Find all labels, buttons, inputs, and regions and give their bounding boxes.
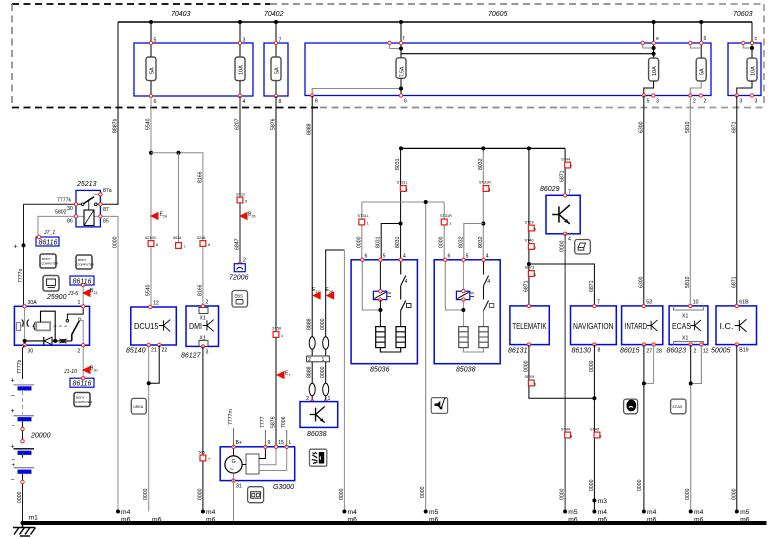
- svg-text:86015: 86015: [620, 348, 640, 355]
- ECU ECAS: [667, 306, 708, 355]
- pin 5: [149, 38, 156, 45]
- wire fuse F7 to pins: [737, 81, 752, 96]
- svg-text:25213: 25213: [76, 181, 97, 188]
- svg-text:0000: 0000: [339, 488, 345, 500]
- connector ST31L 1: [358, 214, 369, 226]
- svg-text:NAVIGATION: NAVIGATION: [573, 322, 614, 331]
- svg-text:12: 12: [703, 349, 709, 355]
- svg-text:0000: 0000: [356, 236, 362, 248]
- svg-text:4: 4: [534, 273, 536, 277]
- svg-text:86029: 86029: [540, 186, 560, 193]
- svg-text:85038: 85038: [456, 367, 476, 374]
- svg-text:2: 2: [308, 357, 311, 363]
- svg-text:+: +: [11, 444, 15, 451]
- heater unit 85036: [351, 260, 417, 374]
- svg-text:m3: m3: [598, 498, 608, 505]
- svg-text:5: 5: [534, 383, 536, 387]
- connector ST44 7: [561, 158, 572, 169]
- wire DMI ground: [197, 346, 203, 511]
- svg-text:7: 7: [568, 190, 571, 196]
- svg-text:0000: 0000: [560, 488, 566, 500]
- wire 6300 fuse F5 to INTARD: [638, 96, 644, 306]
- svg-text:2: 2: [406, 188, 408, 192]
- svg-text:0000: 0000: [420, 486, 426, 498]
- svg-text:J3-6: J3-6: [67, 291, 78, 297]
- svg-text:2: 2: [243, 258, 246, 264]
- svg-text:6871: 6871: [731, 276, 737, 288]
- svg-text:7: 7: [597, 300, 600, 306]
- svg-text:10: 10: [693, 300, 699, 306]
- svg-text:12: 12: [153, 301, 159, 307]
- wire ground run x344: [339, 250, 345, 512]
- svg-text:85036: 85036: [370, 367, 390, 374]
- svg-text:2: 2: [704, 99, 707, 105]
- pin 30: [67, 203, 78, 213]
- pin 6: [149, 94, 156, 105]
- svg-text:TELEMATIK: TELEMATIK: [512, 322, 547, 331]
- svg-text:1: 1: [449, 222, 451, 226]
- audio icon: [431, 398, 447, 414]
- svg-text:7: 7: [570, 165, 572, 169]
- wire 5810 fuse F6 to ECAS: [685, 96, 691, 306]
- svg-text:15: 15: [278, 440, 284, 446]
- pin 2 72006: [238, 258, 246, 266]
- twisted pair upper: [309, 337, 329, 349]
- svg-text:3: 3: [534, 228, 536, 232]
- svg-text:7006: 7006: [281, 416, 287, 428]
- svg-text:86: 86: [67, 219, 73, 225]
- svg-text:6: 6: [208, 243, 210, 247]
- pin 3: [735, 94, 742, 105]
- svg-text:m4: m4: [121, 509, 131, 516]
- pin 3: [652, 94, 659, 105]
- svg-text:5: 5: [383, 254, 386, 260]
- svg-text:7: 7: [289, 374, 291, 378]
- svg-text:506: 506: [199, 451, 205, 455]
- pin 3: [238, 38, 245, 45]
- svg-text:0000: 0000: [197, 488, 203, 500]
- connector ST44 4: [561, 428, 572, 439]
- svg-text:70403: 70403: [171, 11, 191, 18]
- svg-text:~: ~: [230, 467, 234, 474]
- svg-text:8032: 8032: [478, 158, 484, 170]
- wire 25900 pin2 to 86116: [82, 345, 84, 378]
- svg-text:1: 1: [281, 334, 283, 338]
- svg-text:8166: 8166: [198, 171, 204, 183]
- svg-text:1: 1: [367, 222, 369, 226]
- svg-text:6871: 6871: [560, 170, 566, 182]
- connector SBY3 4: [525, 266, 537, 278]
- pin 2b: [699, 94, 706, 105]
- svg-text:X1: X1: [682, 314, 688, 320]
- svg-text:G3000: G3000: [273, 484, 294, 491]
- wire distribution bus y148: [399, 146, 565, 150]
- svg-text:2: 2: [534, 246, 536, 250]
- antenna unit 86029: [540, 186, 580, 234]
- pin 12: [149, 301, 159, 309]
- twisted pair lower: [309, 383, 329, 395]
- marker B30: [63, 366, 98, 376]
- horn 72006: [229, 264, 249, 282]
- wire fuse F3 drop: [275, 22, 277, 57]
- wire fuse F7 feed: [751, 22, 753, 58]
- fuse box 70402: [264, 11, 288, 96]
- pin 4 85036: [399, 254, 406, 262]
- svg-text:8: 8: [279, 99, 282, 105]
- node m4 m6 INTARD: [642, 509, 657, 525]
- relay 25900: [14, 294, 89, 345]
- marker B26: [239, 212, 256, 221]
- wire fuse F6 feed: [700, 22, 702, 58]
- svg-text:m5: m5: [568, 509, 578, 516]
- svg-text:1: 1: [322, 357, 325, 363]
- dashed distribution frame: [12, 4, 764, 108]
- svg-text:L: L: [289, 440, 292, 446]
- wire 7777k horizontal to relay pin 30: [24, 198, 77, 205]
- svg-text:70605: 70605: [488, 11, 508, 18]
- svg-text:5810: 5810: [685, 121, 691, 133]
- wire ECAS ground: [685, 345, 701, 512]
- wire fuse F3 bottom: [275, 81, 277, 110]
- svg-text:0000: 0000: [560, 240, 566, 252]
- svg-text:21: 21: [94, 291, 98, 295]
- ECU I.C.: [711, 306, 757, 355]
- svg-text:6: 6: [704, 36, 707, 42]
- pin 22: [158, 343, 168, 353]
- svg-text:8888: 8888: [307, 366, 313, 378]
- wire branch 8031 to pin5: [376, 224, 401, 260]
- svg-text:4: 4: [568, 237, 571, 243]
- fuse box 70603: [728, 11, 761, 96]
- node m4 m6 DMI: [201, 509, 216, 525]
- ECU DCU15: [131, 307, 177, 345]
- wire 86029 ground 0000: [560, 234, 566, 512]
- antenna amp 86038: [300, 402, 338, 438]
- wire fuse F1 bottom: [150, 81, 152, 110]
- relay 25213: [76, 181, 100, 227]
- pin 4 86029: [563, 232, 571, 242]
- marker E7: [276, 371, 291, 380]
- wire fuse F4 feed: [400, 22, 402, 58]
- svg-text:BODY: BODY: [42, 257, 51, 261]
- svg-text:22: 22: [162, 348, 168, 354]
- pin 87: [99, 203, 109, 214]
- pin 8 NAVIGATION: [593, 343, 601, 354]
- marker B21: [82, 288, 98, 297]
- EBS icon: [232, 291, 248, 308]
- svg-text:30A: 30A: [28, 300, 38, 306]
- svg-text:ST31R: ST31R: [440, 214, 452, 218]
- wire stub 7777 pin9: [260, 416, 266, 446]
- ECU DMI: [186, 306, 219, 346]
- svg-text:6207: 6207: [235, 118, 241, 130]
- svg-text:6: 6: [365, 254, 368, 260]
- body computer label 2: [76, 255, 95, 269]
- svg-text:5034: 5034: [173, 236, 181, 240]
- svg-text:0000: 0000: [17, 491, 23, 503]
- svg-text:INTARD.: INTARD.: [625, 322, 649, 331]
- svg-text:5802: 5802: [55, 210, 67, 216]
- svg-text:52193: 52193: [145, 236, 156, 240]
- svg-text:−: −: [11, 477, 15, 484]
- pin 6 85038: [444, 254, 451, 262]
- connector ST40 9: [590, 428, 602, 439]
- svg-text:X1: X1: [200, 316, 206, 322]
- svg-text:72006: 72006: [229, 275, 249, 282]
- node m4 m6 ECAS: [689, 509, 704, 525]
- fuse F3 5A: [271, 57, 281, 81]
- svg-text:6: 6: [404, 99, 407, 105]
- wire stub 7006 pinL: [281, 416, 287, 446]
- svg-text:30: 30: [94, 369, 98, 373]
- svg-text:1: 1: [78, 300, 81, 306]
- svg-text:m4: m4: [206, 509, 216, 516]
- svg-text:6: 6: [154, 99, 157, 105]
- svg-text:m4: m4: [647, 509, 657, 516]
- svg-text:I.C.: I.C.: [720, 322, 734, 331]
- connector ST31L 2: [397, 181, 408, 193]
- svg-text:10A: 10A: [751, 66, 757, 76]
- pin 2: [689, 94, 696, 105]
- pin 4 85038: [482, 254, 489, 262]
- svg-text:8031: 8031: [376, 236, 382, 248]
- wire link bus y=53.7: [401, 53, 654, 55]
- pin stub c: [742, 36, 758, 50]
- pin 31: [232, 479, 242, 490]
- fuse F5 10A: [649, 58, 659, 81]
- wire 6207 from fuse F2 to 72006: [235, 96, 241, 264]
- wire 7777b battery feed: [17, 345, 25, 379]
- svg-text:DMI: DMI: [189, 322, 202, 331]
- svg-text:8032: 8032: [478, 236, 484, 248]
- battery 20000: [11, 378, 51, 524]
- pin 1 86038: [324, 396, 331, 403]
- pin 5: [642, 94, 649, 105]
- svg-text:8888: 8888: [307, 318, 313, 330]
- display icon: [43, 276, 59, 292]
- connector 86116 J5-10: [70, 377, 94, 388]
- wire navigation feed 6871: [529, 264, 595, 306]
- svg-text:B19: B19: [739, 348, 748, 354]
- svg-text:6300: 6300: [638, 276, 644, 288]
- pin 7 86029: [563, 190, 571, 198]
- svg-text:28: 28: [656, 349, 662, 355]
- wire bus drop to 86029: [560, 148, 566, 195]
- svg-text:50005: 50005: [711, 348, 731, 355]
- svg-text:ST44: ST44: [561, 158, 570, 162]
- svg-text:8: 8: [156, 243, 158, 247]
- pin 6 right: [399, 94, 407, 105]
- svg-text:8: 8: [598, 348, 601, 354]
- connector 506: [199, 451, 211, 462]
- svg-text:ST12: ST12: [236, 193, 245, 197]
- pin 21: [147, 343, 157, 353]
- node m1: [21, 515, 39, 526]
- connector ST31R 1: [440, 214, 452, 226]
- svg-text:ST31L: ST31L: [358, 214, 369, 218]
- retarder icon: [624, 399, 638, 414]
- svg-text:7777o: 7777o: [18, 268, 24, 283]
- pin stub e: [641, 36, 659, 56]
- wire fuse F4 to pins 6: [312, 78, 403, 95]
- marker E17: [312, 287, 321, 300]
- pin 6 left: [311, 94, 319, 105]
- wire 8031 from bus to 85036: [395, 148, 403, 259]
- svg-text:7: 7: [184, 245, 186, 249]
- ECAS icon: [671, 399, 686, 414]
- svg-text:BODY: BODY: [78, 258, 87, 262]
- svg-text:85140: 85140: [126, 348, 146, 355]
- wire ground link y202: [362, 201, 444, 203]
- svg-text:ECAS: ECAS: [673, 405, 683, 409]
- svg-text:ST29: ST29: [525, 221, 534, 225]
- wire navigation ground: [589, 345, 597, 512]
- svg-text:87: 87: [103, 207, 109, 213]
- svg-text:21: 21: [151, 348, 157, 354]
- svg-text:ST31L: ST31L: [397, 181, 408, 185]
- svg-text:ST31R: ST31R: [479, 181, 491, 185]
- svg-text:5540: 5540: [146, 118, 152, 130]
- node m5 m6 x426: [424, 509, 439, 525]
- connector 5248: [197, 236, 210, 247]
- wire 5540 from fuse F1 to DCU15: [146, 96, 154, 307]
- svg-text:c: c: [755, 36, 758, 42]
- pin 28 INTARD: [652, 343, 662, 355]
- wire fuse F2 bottom: [239, 81, 241, 110]
- svg-text:0000: 0000: [320, 318, 326, 330]
- svg-text:85: 85: [103, 219, 109, 225]
- ECU INTARD: [620, 306, 663, 355]
- connector 86116 J7_1: [36, 230, 59, 247]
- wire fuse F1 drop: [150, 22, 152, 57]
- wire G3000 ground: [233, 473, 235, 523]
- svg-text:ST40: ST40: [590, 428, 599, 432]
- svg-text:+: +: [14, 244, 18, 251]
- marker E24: [150, 212, 167, 221]
- svg-text:7,5A: 7,5A: [400, 66, 406, 77]
- svg-text:28: 28: [329, 290, 333, 294]
- UREA label box: [131, 398, 146, 414]
- svg-text:31: 31: [236, 484, 242, 490]
- svg-text:m5: m5: [740, 509, 750, 516]
- svg-text:2: 2: [78, 349, 81, 355]
- node + junction on 7777 wire: [14, 204, 26, 305]
- connector SBY5 5: [525, 375, 537, 387]
- svg-text:UREA: UREA: [133, 405, 144, 409]
- pin 85: [99, 215, 109, 225]
- fuse F7 10A: [747, 58, 757, 81]
- svg-text:25900: 25900: [46, 294, 67, 301]
- pin 86: [67, 215, 78, 225]
- svg-text:−: −: [12, 424, 16, 430]
- connector ST58: [272, 327, 283, 339]
- wire 86116 to 25900 pin1: [82, 285, 84, 306]
- wire DCU15 grounds: [143, 345, 159, 512]
- fuse box 70403: [134, 11, 253, 96]
- ECU TELEMATIK: [508, 306, 549, 355]
- pin B19 IC: [735, 343, 749, 354]
- node m5 m6 IC: [735, 509, 750, 525]
- wire branch 8032 to pin5: [458, 224, 483, 260]
- svg-text:EBS: EBS: [235, 294, 244, 299]
- svg-text:m4: m4: [348, 509, 358, 516]
- wire 0000 to 86038 pin1: [320, 250, 344, 402]
- wire 5802 to relay pin 86: [38, 210, 76, 238]
- pin 4: [238, 94, 245, 105]
- pin 53 INTARD: [642, 300, 652, 308]
- wire 6871 fuse F7 to IC: [731, 96, 737, 306]
- pin 2 ECAS: [689, 343, 697, 355]
- svg-text:5A: 5A: [150, 67, 156, 74]
- svg-text:8032: 8032: [458, 236, 464, 248]
- svg-text:7777m: 7777m: [228, 409, 234, 425]
- svg-text:5: 5: [154, 38, 157, 44]
- svg-text:BODY: BODY: [76, 396, 85, 400]
- wire 5876 from fuse F3 to G3000 pin15: [271, 96, 277, 447]
- heater unit 85038: [434, 260, 500, 374]
- pin B+: [232, 440, 242, 448]
- fuse F2 10A: [235, 57, 245, 81]
- svg-text:3: 3: [755, 99, 758, 105]
- svg-text:0000: 0000: [731, 488, 737, 500]
- svg-text:3: 3: [206, 350, 209, 356]
- fuse box 70605: [305, 11, 711, 96]
- svg-text:0000: 0000: [439, 236, 445, 248]
- svg-text:ST58: ST58: [272, 327, 281, 331]
- svg-text:B+: B+: [236, 440, 243, 446]
- body computer label 3: [74, 393, 93, 407]
- svg-text:27: 27: [646, 349, 652, 355]
- svg-text:7: 7: [208, 458, 210, 462]
- pin top TELEMATIK: [527, 304, 530, 307]
- inline connector 2/1: [307, 356, 330, 363]
- wire 8888 from fuse F4 pin6 to 86038 pin2: [307, 96, 313, 402]
- svg-text:5876: 5876: [271, 416, 277, 428]
- connector ST12: [236, 193, 247, 204]
- svg-text:6871: 6871: [731, 121, 737, 133]
- connector ST29 3: [525, 221, 537, 232]
- svg-text:86116: 86116: [39, 240, 58, 247]
- speaker icon: [310, 449, 327, 466]
- svg-text:0000: 0000: [589, 479, 595, 491]
- svg-text:ST44: ST44: [561, 428, 570, 432]
- wire ground run x426: [420, 200, 428, 512]
- pin L: [285, 440, 292, 448]
- alternator G3000: [220, 447, 295, 491]
- wire IC ground: [731, 345, 737, 512]
- pin 2: [201, 300, 208, 308]
- pin 3: [201, 345, 208, 356]
- svg-text:5A: 5A: [275, 67, 281, 74]
- pin 7 NAVIGATION: [593, 300, 600, 308]
- svg-text:6847: 6847: [235, 238, 241, 250]
- svg-text:7777k: 7777k: [57, 198, 72, 204]
- fuse F1 5A: [146, 57, 156, 81]
- svg-text:6871: 6871: [589, 280, 595, 292]
- svg-text:8031: 8031: [395, 236, 401, 248]
- pin 12 ECAS: [700, 343, 709, 355]
- svg-text:0000: 0000: [143, 488, 149, 500]
- svg-text:17: 17: [316, 290, 320, 294]
- svg-text:3: 3: [656, 99, 659, 105]
- svg-text:86130: 86130: [572, 348, 592, 355]
- pin bottom TELEMATIK: [527, 343, 530, 346]
- wire 0000 to 85038 pin6: [439, 202, 445, 260]
- svg-text:6300: 6300: [638, 121, 644, 133]
- svg-text:5248: 5248: [197, 236, 205, 240]
- pin 3b: [750, 94, 757, 105]
- svg-text:m4: m4: [694, 509, 704, 516]
